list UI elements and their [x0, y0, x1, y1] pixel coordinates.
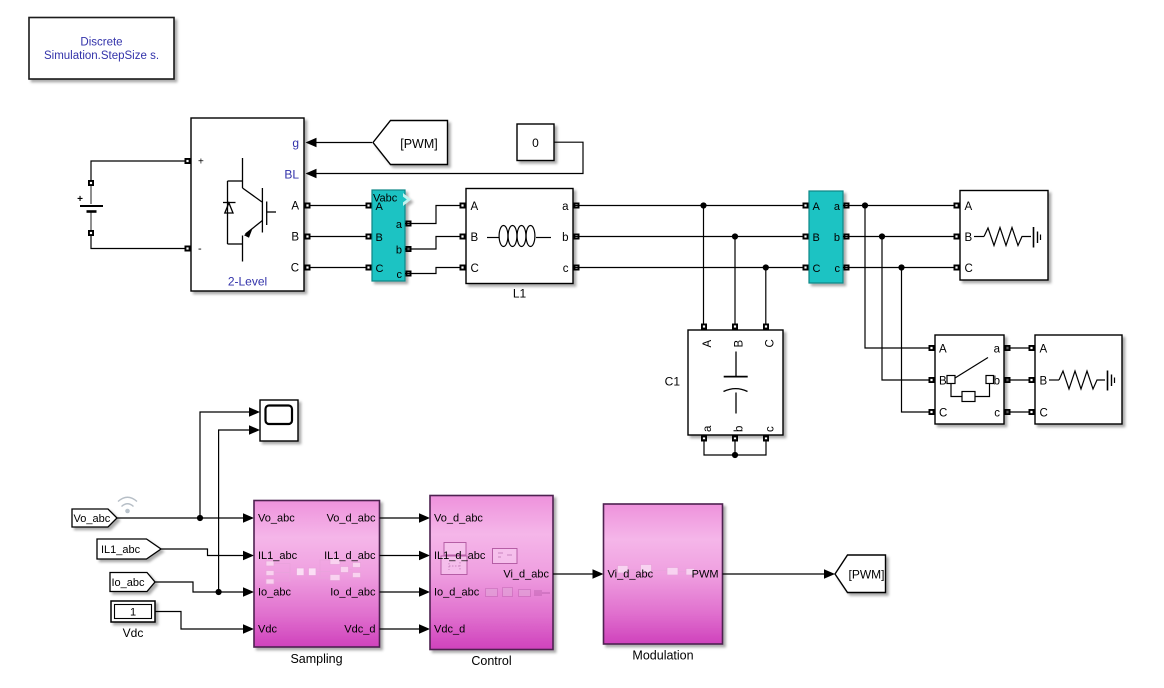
wire Sampling IL1_d_abc to Control: [380, 555, 421, 557]
resistor-to-ground icon Load1: [974, 227, 1041, 248]
port Breaker B: [929, 377, 935, 383]
port L1 B: [460, 234, 466, 240]
port 2-Level +: [185, 158, 191, 164]
resistor-to-ground icon Load2: [1049, 371, 1115, 391]
svg-text:C: C: [376, 263, 384, 275]
From tag IL1_abc: [97, 539, 161, 559]
block Modulation subsystem: [604, 504, 723, 644]
wire Vabc c to L1 C: [405, 268, 466, 274]
wire breaker c to Load2 C: [1004, 411, 1035, 413]
junction b-breaker: [879, 233, 885, 239]
svg-text:B: B: [471, 232, 479, 244]
svg-text:C: C: [291, 263, 299, 275]
wire tap b to C1 B: [734, 237, 736, 327]
junction C1 neutral: [732, 452, 738, 458]
svg-text:c: c: [765, 426, 777, 432]
wire breaker b to Load2 B: [1004, 379, 1035, 381]
constant block 0: [517, 124, 554, 161]
block C1 three-phase capacitor bank: [688, 330, 783, 435]
wire L1 c to meas2 C: [573, 267, 809, 269]
wire DC- to 2-Level - port: [91, 233, 188, 249]
arrow Io in: [243, 587, 254, 597]
port Breaker C: [929, 409, 935, 415]
svg-text:IL1_abc: IL1_abc: [258, 550, 298, 562]
arrow into g port: [306, 138, 317, 148]
wire Vdc to Sampling: [155, 612, 244, 630]
port meas2 B: [803, 234, 809, 240]
svg-text:b: b: [562, 232, 568, 244]
port L1 b: [574, 234, 580, 240]
svg-text:C: C: [765, 339, 777, 347]
svg-text:b: b: [834, 232, 840, 244]
arrow Vo_abc in: [243, 513, 254, 523]
port Vabc B: [366, 234, 372, 240]
svg-text:IL1_d_abc: IL1_d_abc: [324, 550, 376, 562]
svg-text:g: g: [292, 136, 299, 150]
svg-text:a: a: [834, 201, 841, 213]
junction Vo-scope: [197, 515, 203, 521]
wire L1 b to meas2 B: [573, 236, 809, 238]
svg-text:C: C: [813, 263, 821, 275]
svg-text:Discrete: Discrete: [80, 37, 122, 49]
svg-text:PWM: PWM: [692, 569, 719, 581]
svg-text:Vdc_d: Vdc_d: [344, 624, 375, 636]
port Vabc a: [406, 221, 412, 227]
junction node a-C1: [700, 202, 706, 208]
block Load2 three-phase RL load: [1035, 335, 1122, 424]
block Load1 three-phase RL load: [960, 191, 1048, 281]
wire tap a to breaker A: [865, 206, 933, 349]
wire tap c to breaker C: [902, 268, 934, 413]
port Vabc A: [366, 203, 372, 209]
port 2-Level C: [305, 265, 311, 271]
svg-text:Vi_d_abc: Vi_d_abc: [503, 569, 549, 581]
wire 2-Level B to Vabc meas B: [306, 236, 372, 238]
svg-text:B: B: [1040, 376, 1048, 388]
svg-text:B: B: [965, 232, 973, 244]
wire tap a to C1 A: [703, 206, 705, 327]
svg-text:Vo_abc: Vo_abc: [258, 513, 295, 525]
wire Sampling Vdc_d to Control: [380, 628, 421, 630]
wire 2-Level A to Vabc meas A: [306, 205, 372, 207]
svg-text:a: a: [702, 425, 714, 432]
svg-text:+: +: [77, 194, 83, 205]
svg-text:Modulation: Modulation: [632, 649, 693, 663]
wire tap b to breaker B: [882, 237, 933, 381]
svg-text:B: B: [939, 376, 947, 388]
port 2-Level B: [305, 234, 311, 240]
svg-text:L1: L1: [513, 287, 527, 301]
port DC source -: [88, 230, 94, 236]
svg-text:-: -: [198, 243, 202, 255]
wire Vo_abc to Sampling: [117, 517, 244, 519]
port meas2 c: [844, 265, 850, 271]
Goto tag [PWM] bottom: [835, 555, 886, 593]
svg-text:C: C: [939, 408, 947, 420]
svg-text:b: b: [396, 245, 402, 257]
svg-text:b: b: [994, 376, 1000, 388]
port meas2 C: [803, 265, 809, 271]
port C1 b: [732, 436, 738, 442]
annotation block "Discrete Simulation.StepSize s.": [29, 18, 174, 80]
wire DC+ to 2-Level + port: [91, 161, 188, 183]
svg-text:Vo_abc: Vo_abc: [74, 513, 111, 525]
svg-text:Vdc: Vdc: [258, 624, 277, 636]
port 2-Level A: [305, 203, 311, 209]
port Load1 C: [954, 265, 960, 271]
svg-text:1: 1: [130, 607, 136, 619]
svg-text:C: C: [965, 263, 973, 275]
port Vabc C: [366, 265, 372, 271]
svg-text:Io_abc: Io_abc: [112, 577, 146, 589]
block 2-Level converter: [191, 118, 304, 291]
port Load2 B: [1029, 377, 1035, 383]
port 2-Level -: [185, 246, 191, 252]
port meas2 a: [844, 203, 850, 209]
wire C1 neutral join: [704, 439, 766, 455]
svg-text:[PWM]: [PWM]: [400, 137, 438, 151]
From tag Io_abc: [110, 573, 155, 592]
port Breaker c: [1005, 409, 1011, 415]
port meas2 A: [803, 203, 809, 209]
wifi icon above Vo_abc tag: [118, 497, 137, 506]
svg-text:Io_abc: Io_abc: [258, 587, 292, 599]
svg-text:c: c: [994, 408, 1000, 420]
svg-text:2-Level: 2-Level: [228, 275, 267, 289]
block meas2 (teal): [809, 191, 843, 283]
svg-text:C: C: [471, 263, 479, 275]
Control inner thumbnail: [441, 543, 517, 575]
wire From[PWM] to g: [307, 142, 372, 144]
svg-text:c: c: [835, 263, 841, 275]
wire tap c to C1 C: [765, 268, 767, 327]
svg-text:A: A: [813, 201, 821, 213]
svg-text:b: b: [734, 426, 746, 432]
port C1 c: [763, 436, 769, 442]
port C1 B: [732, 324, 738, 330]
svg-text:a: a: [396, 219, 403, 231]
svg-text:C1: C1: [665, 375, 681, 389]
IGBT with anti-parallel diode inside 2-Level: [223, 158, 276, 262]
wire constant 0 to BL: [307, 142, 583, 173]
port L1 c: [574, 265, 580, 271]
svg-text:+: +: [198, 157, 204, 168]
block Control subsystem: [430, 496, 553, 650]
wire Vabc b to L1 B: [405, 237, 466, 250]
block Sampling subsystem: [254, 501, 380, 648]
svg-text:A: A: [1040, 344, 1048, 356]
junction c-breaker: [898, 264, 904, 270]
svg-text:A: A: [965, 201, 973, 213]
svg-text:A: A: [702, 340, 714, 348]
svg-text:IL1_d_abc: IL1_d_abc: [434, 550, 486, 562]
svg-text:BL: BL: [284, 168, 299, 182]
port Vabc c: [406, 271, 412, 277]
svg-text:Vo_d_abc: Vo_d_abc: [327, 513, 376, 525]
arrow scope in1: [249, 407, 260, 417]
svg-text:B: B: [813, 232, 820, 244]
junction node c-C1: [763, 264, 769, 270]
svg-text:a: a: [562, 201, 569, 213]
wire meas2 b to Load1 B: [843, 236, 960, 238]
svg-text:Sampling: Sampling: [290, 652, 342, 666]
wire scope input 2: [219, 430, 250, 592]
inductor coil icon: [487, 226, 551, 247]
svg-text:Vi_d_abc: Vi_d_abc: [608, 569, 654, 581]
arrow into BL port: [306, 169, 317, 179]
wire IL1_abc to Sampling: [161, 549, 244, 556]
svg-text:0: 0: [532, 136, 539, 150]
port Vabc b: [406, 246, 412, 252]
Sampling inner thumbnail: [266, 559, 361, 585]
wire Sampling Vo_d_abc to Control: [380, 517, 421, 519]
svg-text:A: A: [939, 344, 947, 356]
wire Vabc a to L1 A: [405, 206, 466, 224]
wire meas2 a to Load1 A: [843, 205, 960, 207]
wire 2-Level C to Vabc meas C: [306, 267, 372, 269]
svg-text:Vdc: Vdc: [123, 626, 144, 640]
port Breaker a: [1005, 345, 1011, 351]
arrow IL1 in: [243, 551, 254, 561]
port C1 a: [701, 436, 707, 442]
From tag [PWM] top: [373, 121, 448, 165]
port L1 A: [460, 203, 466, 209]
DC voltage source battery: [77, 186, 103, 231]
wire breaker a to Load2 A: [1004, 347, 1035, 349]
junction node b-C1: [732, 233, 738, 239]
svg-text:Simulation.StepSize s.: Simulation.StepSize s.: [44, 50, 159, 62]
port C1 C: [763, 324, 769, 330]
wire Sampling Io_d_abc to Control: [380, 591, 421, 593]
svg-text:A: A: [471, 201, 479, 213]
port Load1 B: [954, 234, 960, 240]
Modulation inner thumbnail: [618, 565, 695, 576]
breaker switch icon: [947, 358, 994, 402]
svg-text:B: B: [291, 232, 299, 244]
block Scope: [260, 400, 298, 441]
svg-text:Io_d_abc: Io_d_abc: [330, 587, 376, 599]
block Breaker three-phase: [935, 335, 1004, 424]
wire scope input 1: [200, 412, 250, 518]
svg-text:c: c: [563, 263, 569, 275]
port DC source +: [88, 180, 94, 186]
svg-text:a: a: [994, 344, 1001, 356]
svg-text:A: A: [291, 201, 299, 213]
wire meas2 c to Load1 C: [843, 267, 960, 269]
port meas2 b: [844, 234, 850, 240]
arrow Vdc in: [243, 624, 254, 634]
svg-text:c: c: [397, 269, 403, 281]
capacitor icon: [724, 352, 748, 414]
port Load2 C: [1029, 409, 1035, 415]
arrow scope in2: [249, 425, 260, 435]
svg-text:IL1_abc: IL1_abc: [101, 544, 141, 556]
svg-text:Io_d_abc: Io_d_abc: [434, 587, 480, 599]
IGBT emitter arrowhead: [244, 229, 253, 238]
wire L1 a to meas2 A: [573, 205, 809, 207]
svg-text:Control: Control: [471, 654, 511, 668]
svg-text:B: B: [376, 232, 383, 244]
From tag Vo_abc: [72, 509, 117, 527]
block L1 three-phase inductor: [466, 189, 573, 284]
junction a-breaker: [862, 202, 868, 208]
port Breaker A: [929, 345, 935, 351]
junction Io-scope: [216, 589, 222, 595]
port C1 A: [701, 324, 707, 330]
port L1 a: [574, 203, 580, 209]
port Load2 A: [1029, 345, 1035, 351]
diode triangle: [225, 203, 233, 213]
port Breaker b: [1005, 377, 1011, 383]
svg-text:C: C: [1040, 408, 1048, 420]
block Vabc three-phase measurement (teal): [372, 190, 411, 281]
svg-text:[PWM]: [PWM]: [849, 568, 885, 582]
port L1 C: [460, 265, 466, 271]
svg-text:Vdc_d: Vdc_d: [434, 624, 465, 636]
constant block Vdc value 1: [111, 601, 155, 622]
svg-text:Vo_d_abc: Vo_d_abc: [434, 513, 483, 525]
wire Io_abc to Sampling: [155, 582, 244, 592]
svg-text:B: B: [734, 340, 746, 348]
port Load1 A: [954, 203, 960, 209]
wire Control Vi_d_abc to Modulation: [553, 573, 593, 575]
svg-text:A: A: [376, 201, 384, 213]
wire Modulation PWM to Goto tag: [723, 573, 825, 575]
